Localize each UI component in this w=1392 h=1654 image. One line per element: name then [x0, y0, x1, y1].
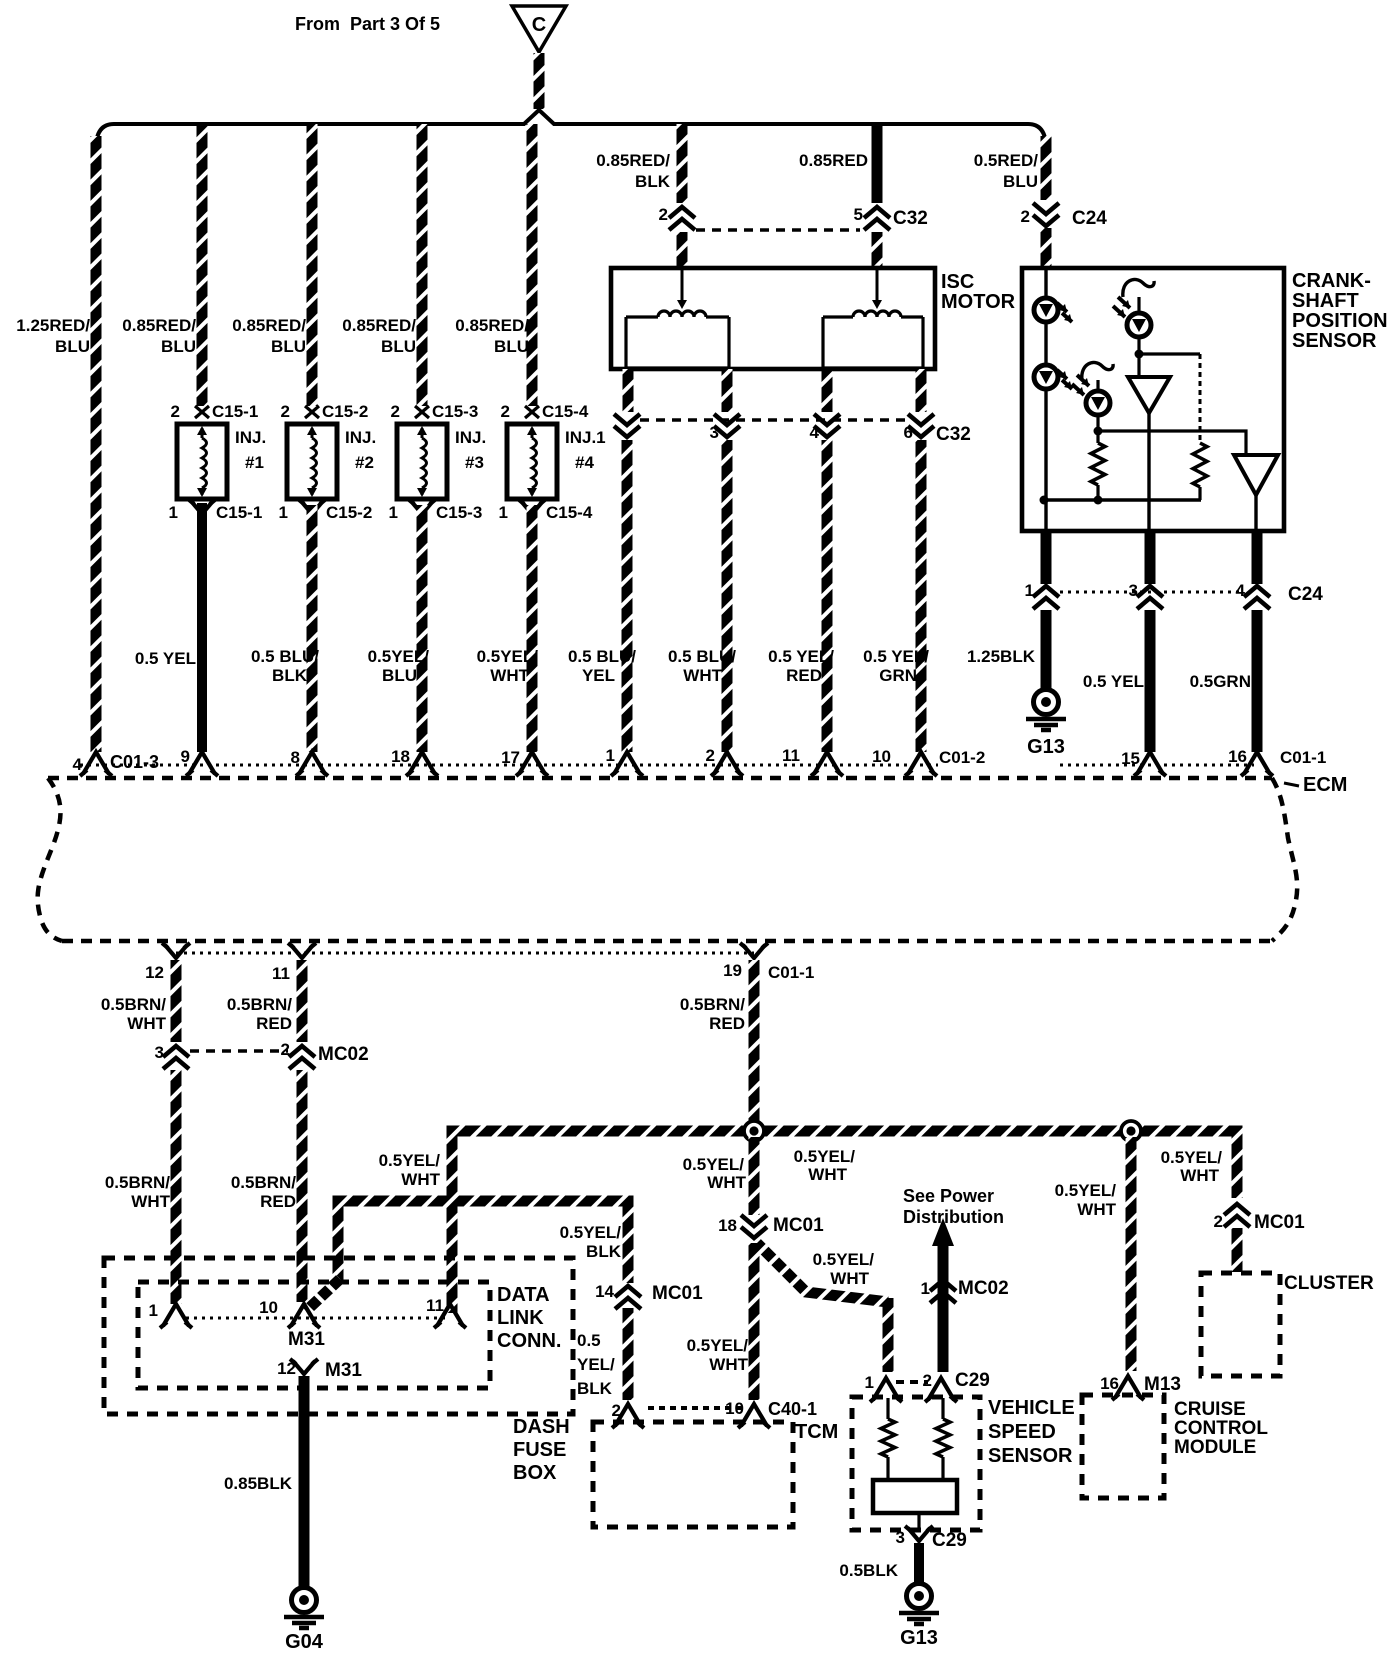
- ECM left edge: [38, 778, 62, 941]
- svg-text:WHT: WHT: [490, 666, 529, 685]
- injector #3 pin 2 connector C15-3: [415, 406, 429, 418]
- connector C29 pin 1: [873, 1378, 899, 1400]
- power feed arrow: [932, 1218, 954, 1246]
- injector #4: [507, 424, 557, 499]
- connector C29 pin 3: [917, 1513, 920, 1530]
- wire 0.5YEL/BLU from injector 3: [417, 505, 428, 752]
- sensor output stub 4: [1252, 531, 1263, 584]
- ECM pin row dots top: [80, 764, 938, 767]
- svg-text:C32: C32: [936, 424, 971, 445]
- svg-text:BLU: BLU: [55, 337, 90, 356]
- wire 0.85RED/BLU #2: [307, 124, 318, 406]
- svg-text:0.5 BLU/: 0.5 BLU/: [568, 647, 636, 666]
- svg-text:0.5YEL/: 0.5YEL/: [813, 1250, 875, 1269]
- svg-text:2: 2: [501, 402, 510, 421]
- svg-text:2: 2: [1214, 1212, 1223, 1231]
- sensor resistor 2: [1193, 443, 1207, 487]
- svg-text:G04: G04: [285, 1631, 324, 1653]
- ground G13 (sensor): [1034, 690, 1059, 715]
- ISC motor coil 2: [876, 270, 879, 302]
- connector C32 pin 1: [614, 414, 640, 425]
- diagonal wire 0.5YEL/WHT to C29: [757, 1243, 888, 1302]
- sensor bottom rail: [1044, 498, 1201, 501]
- svg-text:11: 11: [272, 964, 290, 983]
- diagonal wire to M31 pin 10: [306, 1279, 340, 1311]
- connector M31 pin 1: [163, 1304, 189, 1326]
- bus junction 2: [1121, 1121, 1141, 1141]
- ECM pin 17: [519, 752, 545, 774]
- connector C32 pin 3: [714, 414, 740, 425]
- svg-text:C15-2: C15-2: [322, 402, 368, 421]
- wire to M13 pin 16: [1126, 1137, 1137, 1371]
- svg-text:0.5GRN: 0.5GRN: [1190, 672, 1251, 691]
- sensor amplifier 1: [1137, 354, 1140, 377]
- svg-text:CLUSTER: CLUSTER: [1284, 1273, 1374, 1294]
- ECM pin 9: [189, 752, 215, 774]
- svg-text:BLU: BLU: [494, 337, 529, 356]
- ECM right edge: [1272, 778, 1297, 941]
- svg-text:BLU: BLU: [381, 337, 416, 356]
- connector C24 pin 2: [1033, 203, 1059, 214]
- sensor output stub 3: [1145, 531, 1156, 584]
- svg-text:1: 1: [921, 1279, 930, 1298]
- svg-text:14: 14: [595, 1282, 614, 1301]
- svg-text:SENSOR: SENSOR: [988, 1445, 1073, 1467]
- svg-text:4: 4: [810, 423, 820, 442]
- ground G04: [292, 1588, 317, 1613]
- svg-text:MODULE: MODULE: [1174, 1437, 1256, 1458]
- connector C29 row dashes: [896, 1380, 928, 1384]
- svg-text:1: 1: [169, 503, 178, 522]
- bus 0.5YEL/WHT lower: [338, 1201, 628, 1283]
- svg-text:0.5YEL/: 0.5YEL/: [1055, 1181, 1117, 1200]
- svg-text:0.5BRN/: 0.5BRN/: [101, 995, 166, 1014]
- svg-text:0.85RED: 0.85RED: [799, 151, 868, 170]
- ECM pin 4: [83, 752, 109, 774]
- svg-text:0.5YEL/: 0.5YEL/: [477, 647, 539, 666]
- svg-text:#2: #2: [355, 453, 374, 472]
- ECM pin 16: [1244, 752, 1270, 774]
- ECM pin 11: [814, 752, 840, 774]
- wire 0.5BRN/RED upper: [297, 960, 308, 1042]
- ECM pin 2: [714, 752, 740, 774]
- svg-text:1.25RED/: 1.25RED/: [16, 316, 90, 335]
- svg-text:M31: M31: [325, 1360, 362, 1381]
- svg-text:Distribution: Distribution: [903, 1207, 1004, 1227]
- wire to ISC motor coil 1: [677, 232, 688, 268]
- sensor LED 1: [1034, 298, 1058, 322]
- connector MC01 pin 2: [1224, 1204, 1250, 1215]
- svg-text:2: 2: [281, 1040, 290, 1059]
- wire 0.5 YEL/GRN: [916, 440, 927, 752]
- svg-text:C24: C24: [1072, 208, 1107, 229]
- injector #3 pin 1 connector C15-3: [411, 501, 433, 514]
- svg-text:CONTROL: CONTROL: [1174, 1418, 1268, 1439]
- svg-text:BLU: BLU: [382, 666, 417, 685]
- cluster box: [1201, 1273, 1280, 1376]
- svg-text:0.5 BLU/: 0.5 BLU/: [251, 647, 319, 666]
- svg-text:18: 18: [391, 747, 410, 766]
- svg-text:BLK: BLK: [272, 666, 308, 685]
- wire 0.85RED/BLU #4: [527, 124, 538, 406]
- svg-text:6: 6: [904, 423, 913, 442]
- svg-text:1: 1: [279, 503, 288, 522]
- svg-text:0.5: 0.5: [577, 1331, 601, 1350]
- ECM bottom pin 12: [165, 945, 187, 958]
- wire to MC01 pin 18: [749, 1137, 760, 1215]
- wire 0.85RED/BLK: [677, 124, 688, 203]
- svg-text:C15-2: C15-2: [326, 503, 372, 522]
- wire into cluster: [1232, 1228, 1243, 1272]
- injector #3: [397, 424, 447, 499]
- ECM pin 18: [409, 752, 435, 774]
- svg-text:CONN.: CONN.: [497, 1330, 561, 1352]
- svg-text:C01-1: C01-1: [768, 963, 814, 982]
- svg-text:C15-1: C15-1: [212, 402, 258, 421]
- svg-text:MC01: MC01: [773, 1215, 824, 1236]
- svg-text:YEL: YEL: [582, 666, 615, 685]
- wire 0.5RED/BLU: [1041, 136, 1052, 200]
- svg-text:0.5BLK: 0.5BLK: [839, 1561, 898, 1580]
- svg-text:WHT: WHT: [127, 1014, 166, 1033]
- top bus wire: [96, 110, 1046, 148]
- wire 0.5GRN: [1252, 610, 1263, 752]
- injector #4 pin 2 connector C15-4: [525, 406, 539, 418]
- connector C32 row2 dashes: [640, 418, 908, 422]
- connector C24 row dots: [1060, 591, 1240, 594]
- ECM top edge: [48, 776, 1272, 781]
- svg-text:3: 3: [896, 1528, 905, 1547]
- wire 1.25BLK: [1041, 610, 1052, 691]
- svg-text:YEL/: YEL/: [577, 1355, 615, 1374]
- ECM bottom pin 11: [291, 945, 313, 958]
- svg-text:1: 1: [499, 503, 508, 522]
- svg-text:16: 16: [1100, 1374, 1119, 1393]
- svg-text:C15-4: C15-4: [542, 402, 589, 421]
- svg-text:WHT: WHT: [131, 1192, 170, 1211]
- ECM pin 1: [614, 752, 640, 774]
- svg-text:BLU: BLU: [161, 337, 196, 356]
- svg-text:11: 11: [426, 1296, 444, 1315]
- svg-text:RED: RED: [709, 1014, 745, 1033]
- svg-text:0.5YEL/: 0.5YEL/: [560, 1223, 622, 1242]
- svg-text:1: 1: [865, 1373, 874, 1392]
- svg-text:0.85RED/: 0.85RED/: [455, 316, 529, 335]
- svg-text:M13: M13: [1144, 1374, 1181, 1395]
- svg-text:CRUISE: CRUISE: [1174, 1399, 1246, 1420]
- wire ISC motor output x=921: [916, 369, 927, 412]
- svg-text:C29: C29: [955, 1370, 990, 1391]
- connector C32 pin 2: [669, 207, 695, 218]
- svg-text:SPEED: SPEED: [988, 1421, 1056, 1443]
- svg-text:M31: M31: [288, 1329, 325, 1350]
- wire 0.5BRN/WHT lower: [171, 1070, 182, 1304]
- svg-text:15: 15: [1121, 749, 1140, 768]
- connector C32 pin 6: [908, 414, 934, 425]
- sensor LED 2: [1034, 365, 1058, 389]
- sensor amplifier 2: [1234, 455, 1278, 495]
- injector #4 pin 1 connector C15-4: [521, 501, 543, 514]
- svg-text:BOX: BOX: [513, 1462, 557, 1484]
- bus junction 1: [744, 1121, 764, 1141]
- svg-text:DASH: DASH: [513, 1416, 570, 1438]
- svg-text:C15-3: C15-3: [432, 402, 478, 421]
- svg-text:1: 1: [149, 1301, 158, 1320]
- svg-text:19: 19: [723, 961, 742, 980]
- wire MC01 18 to TCM pin 10: [749, 1243, 760, 1400]
- svg-text:1: 1: [1025, 581, 1034, 600]
- connector M31 pin 12: [293, 1361, 315, 1374]
- wire ISC motor output x=827: [822, 369, 833, 412]
- TCM box: [593, 1422, 793, 1527]
- svg-text:10: 10: [259, 1298, 278, 1317]
- svg-text:0.85RED/: 0.85RED/: [232, 316, 306, 335]
- svg-text:2: 2: [1021, 207, 1030, 226]
- connector M31 pin 10: [291, 1304, 317, 1326]
- svg-text:3: 3: [155, 1043, 164, 1062]
- svg-text:0.5 YEL: 0.5 YEL: [135, 649, 196, 668]
- sensor output stub 1: [1041, 531, 1052, 584]
- svg-text:0.5YEL/: 0.5YEL/: [687, 1336, 749, 1355]
- wire MC01 14 to TCM pin 2: [623, 1308, 634, 1400]
- svg-text:C15-1: C15-1: [216, 503, 262, 522]
- svg-text:0.5YEL/: 0.5YEL/: [683, 1155, 745, 1174]
- wire 0.5 BLU/WHT: [722, 440, 733, 752]
- svg-text:0.85RED/: 0.85RED/: [596, 151, 670, 170]
- connector MC02 pin 3: [163, 1046, 189, 1057]
- wire 1.25RED/BLU: [91, 136, 102, 752]
- connector C29 pin 2: [928, 1378, 954, 1400]
- connector C40-1 pin 10: [741, 1404, 767, 1426]
- wire 0.5YEL/WHT from injector 4: [527, 505, 538, 752]
- svg-text:5: 5: [854, 205, 863, 224]
- svg-text:WHT: WHT: [709, 1355, 748, 1374]
- svg-text:GRN: GRN: [879, 666, 917, 685]
- svg-text:From Part 3 Of 5: From Part 3 Of 5: [295, 14, 440, 34]
- connector M13 pin 16: [1115, 1376, 1141, 1398]
- injector #2: [287, 424, 337, 499]
- svg-text:C: C: [532, 14, 546, 36]
- svg-text:4: 4: [1236, 581, 1246, 600]
- sensor phototransistor 2: [1082, 362, 1113, 380]
- svg-text:3: 3: [710, 423, 719, 442]
- svg-text:ISC: ISC: [941, 271, 974, 293]
- connector C32 pin 4: [814, 414, 840, 425]
- svg-text:2: 2: [612, 1401, 621, 1420]
- svg-text:8: 8: [291, 748, 300, 767]
- wire into crank sensor: [1041, 228, 1052, 268]
- svg-text:C01-1: C01-1: [1280, 748, 1326, 767]
- svg-text:DATA: DATA: [497, 1284, 550, 1306]
- svg-text:INJ.1: INJ.1: [565, 428, 606, 447]
- wire 0.5 YEL (sensor): [1145, 610, 1156, 752]
- svg-text:0.5 YEL: 0.5 YEL: [1083, 672, 1144, 691]
- wire 0.5 YEL from injector 1: [197, 503, 207, 752]
- connector MC01 pin 14: [615, 1286, 641, 1297]
- svg-text:0.85RED/: 0.85RED/: [342, 316, 416, 335]
- ISC motor box: [611, 268, 935, 369]
- ECM bottom pin 19: [743, 945, 765, 958]
- svg-text:2: 2: [923, 1371, 932, 1390]
- svg-text:0.5YEL/: 0.5YEL/: [379, 1151, 441, 1170]
- injector #1: [177, 424, 227, 499]
- svg-text:G13: G13: [1027, 736, 1065, 758]
- svg-text:C15-3: C15-3: [436, 503, 482, 522]
- svg-text:2: 2: [281, 402, 290, 421]
- ECM bottom edge: [62, 939, 1272, 944]
- off-page connector triangle C: [512, 6, 566, 52]
- svg-text:RED: RED: [256, 1014, 292, 1033]
- svg-text:LINK: LINK: [497, 1307, 544, 1329]
- wire 0.85RED/BLU #1: [197, 124, 208, 406]
- svg-text:0.5BRN/: 0.5BRN/: [680, 995, 745, 1014]
- svg-text:#4: #4: [575, 453, 594, 472]
- svg-text:INJ.: INJ.: [345, 428, 376, 447]
- connector M31 pin 11: [437, 1304, 463, 1326]
- connector C32 row dashes: [696, 228, 860, 232]
- svg-text:WHT: WHT: [808, 1165, 847, 1184]
- svg-text:MC02: MC02: [318, 1044, 369, 1065]
- svg-text:0.5YEL/: 0.5YEL/: [794, 1147, 856, 1166]
- VSS resistor 2: [941, 1398, 944, 1419]
- svg-text:FUSE: FUSE: [513, 1439, 566, 1461]
- svg-text:BLK: BLK: [586, 1242, 622, 1261]
- svg-text:CRANK-: CRANK-: [1292, 270, 1371, 292]
- svg-text:RED: RED: [786, 666, 822, 685]
- svg-text:18: 18: [718, 1216, 737, 1235]
- injector #2 pin 2 connector C15-2: [305, 406, 319, 418]
- svg-text:C01-3: C01-3: [110, 752, 159, 772]
- svg-text:WHT: WHT: [401, 1170, 440, 1189]
- svg-text:1.25BLK: 1.25BLK: [967, 647, 1036, 666]
- dash fuse box outline: [104, 1258, 573, 1414]
- svg-text:BLU: BLU: [271, 337, 306, 356]
- ground G13 (VSS): [907, 1584, 932, 1609]
- wire to ISC motor coil 2: [872, 232, 883, 268]
- ECM pin 10: [908, 752, 934, 774]
- svg-text:WHT: WHT: [1077, 1200, 1116, 1219]
- svg-text:0.85RED/: 0.85RED/: [122, 316, 196, 335]
- sensor node junction 1: [1135, 350, 1144, 359]
- svg-text:WHT: WHT: [707, 1173, 746, 1192]
- data link connector outline: [138, 1282, 490, 1388]
- connector C24 pin 1: [1033, 586, 1059, 597]
- connector MC02 pin 2: [289, 1046, 315, 1057]
- svg-text:9: 9: [181, 747, 190, 766]
- svg-text:RED: RED: [260, 1192, 296, 1211]
- svg-text:BLK: BLK: [635, 172, 671, 191]
- ECM pin row dots bottom: [176, 952, 754, 955]
- svg-text:MOTOR: MOTOR: [941, 291, 1016, 313]
- svg-text:C24: C24: [1288, 584, 1323, 605]
- wire 0.85BLK: [299, 1376, 310, 1588]
- svg-text:INJ.: INJ.: [235, 428, 266, 447]
- ECM pin 15: [1137, 752, 1163, 774]
- svg-text:16: 16: [1228, 747, 1247, 766]
- connector C40-1 row dashes: [648, 1406, 742, 1410]
- svg-text:C40-1: C40-1: [768, 1399, 817, 1419]
- svg-text:10: 10: [725, 1399, 744, 1418]
- connector C32 pin 5: [864, 207, 890, 218]
- svg-text:4: 4: [73, 755, 83, 774]
- svg-text:17: 17: [501, 748, 520, 767]
- svg-text:INJ.: INJ.: [455, 428, 486, 447]
- svg-text:12: 12: [145, 963, 164, 982]
- svg-text:0.5 YEL/: 0.5 YEL/: [768, 647, 834, 666]
- svg-text:BLU: BLU: [1003, 172, 1038, 191]
- svg-text:WHT: WHT: [1180, 1166, 1219, 1185]
- svg-text:0.5YEL/: 0.5YEL/: [1161, 1148, 1223, 1167]
- connector C40-1 pin 2: [615, 1404, 641, 1426]
- svg-text:0.5 BLU/: 0.5 BLU/: [668, 647, 736, 666]
- svg-text:ECM: ECM: [1303, 774, 1347, 796]
- svg-text:0.5YEL/: 0.5YEL/: [368, 647, 430, 666]
- svg-text:SHAFT: SHAFT: [1292, 290, 1359, 312]
- connector M31 row dots: [186, 1317, 447, 1320]
- svg-text:0.85BLK: 0.85BLK: [224, 1474, 293, 1493]
- svg-text:VEHICLE: VEHICLE: [988, 1397, 1075, 1419]
- svg-text:MC02: MC02: [958, 1278, 1009, 1299]
- wire 0.5BLK: [914, 1543, 924, 1586]
- bus 0.5YEL/WHT upper: [452, 1131, 1237, 1313]
- svg-text:C29: C29: [932, 1530, 967, 1551]
- sensor resistor 1: [1091, 443, 1105, 485]
- sensor node junction 2: [1094, 427, 1103, 436]
- svg-text:TCM: TCM: [795, 1421, 838, 1443]
- wire to C29 pin 1: [883, 1298, 894, 1372]
- wire ISC motor output x=727: [722, 369, 733, 412]
- connector MC01 pin 18: [741, 1215, 767, 1226]
- sensor phototransistor 1: [1123, 279, 1154, 297]
- svg-text:11: 11: [782, 746, 800, 765]
- svg-text:0.5BRN/: 0.5BRN/: [105, 1173, 170, 1192]
- VSS element: [873, 1480, 957, 1513]
- vehicle speed sensor box: [852, 1397, 980, 1530]
- connector C24 pin 3: [1137, 586, 1163, 597]
- wire 0.5BRN/WHT upper: [171, 960, 182, 1042]
- svg-text:WHT: WHT: [830, 1269, 869, 1288]
- svg-text:2: 2: [706, 746, 715, 765]
- svg-text:C01-2: C01-2: [939, 748, 985, 767]
- svg-text:See Power: See Power: [903, 1186, 994, 1206]
- svg-text:WHT: WHT: [683, 666, 722, 685]
- svg-text:1: 1: [606, 746, 615, 765]
- svg-text:10: 10: [872, 747, 891, 766]
- wire 0.5 BLU/BLK from injector 2: [307, 505, 318, 752]
- svg-text:MC01: MC01: [1254, 1212, 1305, 1233]
- svg-text:0.5 YEL/: 0.5 YEL/: [863, 647, 929, 666]
- svg-text:BLK: BLK: [577, 1379, 613, 1398]
- crankshaft position sensor box: [1022, 268, 1284, 531]
- connector MC02 pin 1: [930, 1280, 956, 1291]
- wire 0.5 YEL/RED: [822, 440, 833, 752]
- svg-text:0.5BRN/: 0.5BRN/: [231, 1173, 296, 1192]
- cruise control module box: [1082, 1395, 1164, 1498]
- svg-text:0.5BRN/: 0.5BRN/: [227, 995, 292, 1014]
- svg-text:1: 1: [389, 503, 398, 522]
- injector #1 pin 1 connector C15-1: [191, 501, 213, 514]
- VSS resistor 1: [886, 1398, 889, 1419]
- connector MC02 row dashes: [190, 1049, 288, 1053]
- svg-text:C32: C32: [893, 208, 928, 229]
- injector #2 pin 1 connector C15-2: [301, 501, 323, 514]
- wire 0.5BRN/RED from ECM pin 19: [749, 960, 760, 1126]
- injector #1 pin 2 connector C15-1: [195, 406, 209, 418]
- wire 0.85RED/BLU #3: [417, 124, 428, 406]
- ECM pin 8: [299, 752, 325, 774]
- svg-text:SENSOR: SENSOR: [1292, 330, 1377, 352]
- sensor internal left wire: [1044, 268, 1047, 531]
